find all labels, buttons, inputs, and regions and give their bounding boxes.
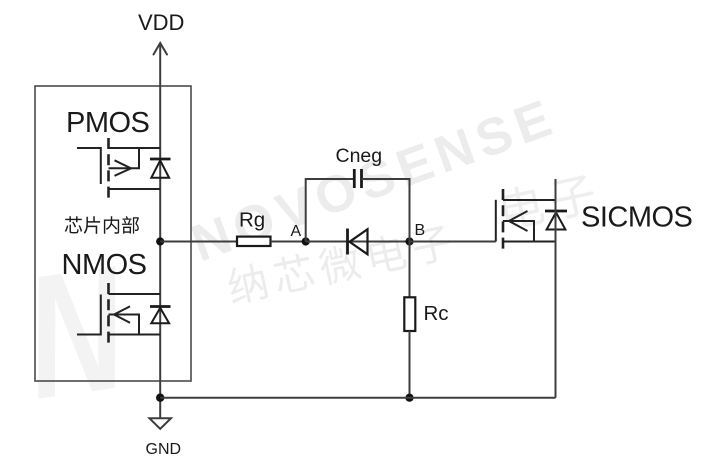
watermark 电子 fragment: [500, 171, 598, 231]
watermark 纳芯微电子: [225, 222, 453, 306]
diode D1: [348, 229, 368, 255]
ground: [149, 418, 171, 429]
chip internal box: [35, 86, 191, 381]
svg-text:PMOS: PMOS: [66, 107, 150, 139]
diode NMOS body: [150, 307, 171, 324]
wire SICMOS source: [555, 242, 557, 398]
wire A to B: [306, 241, 410, 243]
wire output to Rg: [160, 241, 237, 243]
wire B to Rc: [409, 242, 411, 298]
wire Rg to A: [271, 241, 306, 243]
wire VDD rail: [159, 44, 161, 418]
resistor Rc: [404, 297, 415, 331]
芯片内部 label: [65, 216, 139, 234]
VDD arrow: [154, 43, 168, 55]
svg-text:Cneg: Cneg: [336, 145, 383, 167]
diode PMOS body: [150, 159, 171, 178]
node B: [405, 237, 413, 245]
node A: [302, 237, 310, 245]
diode SICMOS body: [545, 211, 567, 230]
node ground junction: [156, 394, 164, 402]
wire Rc to ground bus: [409, 331, 411, 398]
wire Cneg to B: [362, 179, 410, 242]
transistor PMOS: [77, 138, 160, 199]
watermark logo N: [14, 229, 138, 436]
svg-text:A: A: [291, 223, 302, 240]
wire ground bus: [160, 397, 555, 399]
svg-text:Rg: Rg: [239, 208, 265, 231]
svg-text:Rc: Rc: [424, 302, 449, 325]
node output junction: [156, 237, 164, 245]
svg-text:SICMOS: SICMOS: [581, 202, 693, 234]
transistor NMOS: [77, 283, 160, 346]
capacitor Cneg: [354, 169, 361, 188]
wire B to SICMOS gate: [410, 241, 496, 243]
transistor SICMOS: [496, 189, 556, 253]
svg-text:NMOS: NMOS: [62, 249, 147, 281]
resistor Rg: [237, 237, 271, 246]
wire A to Cneg: [306, 179, 355, 242]
svg-text:GND: GND: [146, 441, 182, 458]
svg-text:B: B: [415, 222, 426, 239]
node Rc junction: [405, 394, 413, 402]
wire SICMOS drain: [555, 179, 557, 242]
svg-text:VDD: VDD: [138, 10, 184, 35]
